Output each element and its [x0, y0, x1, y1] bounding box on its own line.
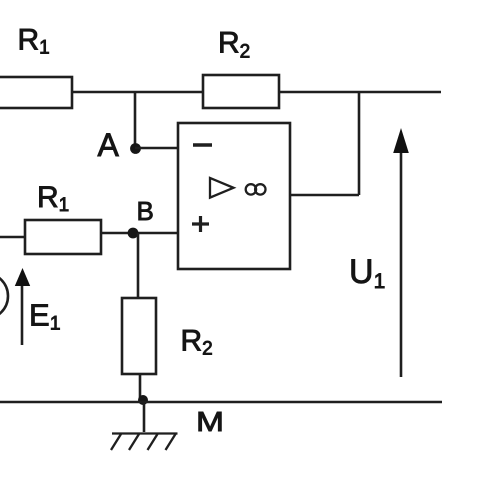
op-amp infinity symbol	[246, 184, 256, 194]
op-amp inverting input mark −	[193, 143, 212, 146]
wire from R1 to R2 (top)	[72, 91, 203, 94]
wire feedback to op-amp output	[290, 194, 359, 197]
wire feedback vertical (right of op-amp)	[358, 92, 361, 195]
node B junction dot	[128, 228, 139, 239]
svg-text:R1: R1	[37, 181, 69, 216]
svg-text:E1: E1	[29, 298, 61, 335]
wire node B down to vertical R2	[137, 233, 140, 299]
wire node A to inverting input	[135, 147, 178, 150]
source E1 circle (clipped at left edge)	[0, 273, 8, 319]
wire vertical drop to node A	[134, 92, 137, 148]
resistor R2 (vertical)	[122, 298, 156, 374]
svg-text:A: A	[98, 127, 120, 163]
ground stub wire	[143, 402, 146, 432]
ground rail wire	[0, 401, 442, 404]
wire from R2 to output terminal (top right)	[279, 91, 441, 94]
op-amp gain triangle	[210, 178, 234, 198]
arrow U1	[393, 128, 409, 377]
resistor R2 (top feedback)	[203, 75, 279, 108]
op-amp U1 body	[178, 123, 290, 269]
arrow E1	[15, 268, 30, 345]
svg-text:U1: U1	[349, 253, 385, 293]
resistor R1 (lower)	[25, 220, 101, 254]
node A junction dot	[130, 143, 141, 154]
op-amp non-inverting input mark +	[192, 222, 209, 225]
svg-text:R2: R2	[218, 27, 250, 63]
ground symbol	[111, 434, 178, 451]
svg-text:B: B	[137, 196, 154, 226]
wire R2 down to ground rail	[139, 374, 142, 402]
resistor R1 (top left)	[0, 77, 72, 108]
svg-text:R1: R1	[18, 24, 50, 59]
svg-text:R2: R2	[181, 325, 213, 360]
wire R1 to node B and non-inverting input	[101, 232, 178, 235]
node M junction dot	[138, 395, 148, 405]
svg-text:M: M	[196, 406, 224, 437]
wire stub into lower R1	[0, 236, 25, 239]
